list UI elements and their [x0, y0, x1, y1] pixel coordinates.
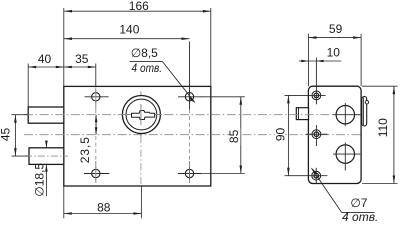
hole big lower	[336, 145, 354, 163]
dim 88 extension lines	[63, 186, 65, 218]
dim 110 extension lines	[362, 85, 398, 87]
key slot	[132, 111, 155, 120]
dim 23,5	[95, 115, 97, 135]
dim 140	[64, 38, 190, 40]
tab right flange of strike plate	[362, 97, 367, 126]
dim 110	[393, 86, 395, 183]
dim 40 extension left	[27, 64, 29, 108]
hole strike middle Ø7	[312, 130, 321, 139]
svg-text:59: 59	[329, 22, 343, 36]
dim 59 extension lines	[308, 34, 310, 86]
dim 166 extension lines	[63, 8, 65, 86]
dim 35	[64, 66, 96, 68]
dim 90	[287, 95, 289, 175]
strike plate outline	[308, 86, 361, 183]
svg-text:35: 35	[75, 52, 89, 66]
svg-text:166: 166	[129, 0, 149, 13]
svg-text:∅8,5: ∅8,5	[131, 46, 158, 60]
dim Ø18,5	[45, 140, 47, 148]
hole bottom-right screw Ø8.5	[185, 169, 193, 177]
dim 45	[14, 115, 16, 156]
leader Ø8,5	[162, 61, 194, 102]
svg-text:45: 45	[0, 128, 13, 142]
svg-text:∅18,5: ∅18,5	[32, 163, 46, 197]
leader Ø7	[312, 168, 342, 212]
svg-text:88: 88	[97, 200, 111, 214]
dim 45 extension lines	[12, 114, 29, 116]
dim 10	[299, 60, 342, 62]
svg-text:85: 85	[227, 129, 241, 143]
dim 140 right extension to hole	[189, 42, 191, 110]
dim 40	[28, 66, 64, 68]
dim 35 right extension	[95, 64, 97, 88]
svg-text:90: 90	[273, 128, 287, 142]
cylinder vertical centerline over slot	[140, 104, 142, 125]
latch box left of strike plate	[296, 108, 308, 120]
cylinder inner circle	[126, 99, 157, 130]
node left hole column line x=95.8	[95, 88, 97, 110]
bolt upper	[28, 107, 64, 123]
axis cylinder vertical centerline x=140.9	[140, 92, 142, 137]
hole bottom-left screw Ø8.5	[92, 169, 100, 177]
svg-text:110: 110	[376, 118, 390, 137]
hole big upper	[336, 106, 354, 124]
cylinder crosshair horizontal	[121, 114, 162, 116]
hole strike top Ø7	[312, 91, 321, 100]
hole top-left screw Ø8.5	[92, 93, 100, 101]
dim 88	[64, 213, 142, 215]
node right hole column line x=189.5	[189, 110, 191, 162]
axis lower bolt centerline y=156.1	[25, 155, 68, 157]
lock body outline	[64, 86, 211, 186]
svg-text:10: 10	[327, 46, 341, 60]
dim 59	[309, 37, 362, 39]
svg-text:23,5: 23,5	[78, 136, 92, 163]
hole strike bottom Ø7	[312, 171, 321, 180]
dim 85	[240, 97, 242, 174]
svg-text:40: 40	[38, 52, 52, 66]
axis main horizontal centerline y=134.7	[24, 134, 361, 136]
cylinder outer circle	[122, 96, 160, 134]
dim 166	[64, 10, 210, 12]
bolt lower	[29, 148, 64, 165]
svg-text:140: 140	[119, 22, 139, 36]
axis upper bolt / cylinder centerline y=114.7	[24, 114, 361, 116]
svg-text:4 отв.: 4 отв.	[132, 61, 163, 75]
svg-text:∅7: ∅7	[350, 196, 367, 210]
dim 85 extension lines	[201, 96, 245, 98]
hole top-right screw Ø8.5	[185, 93, 193, 101]
svg-text:4 отв.: 4 отв.	[342, 210, 378, 222]
